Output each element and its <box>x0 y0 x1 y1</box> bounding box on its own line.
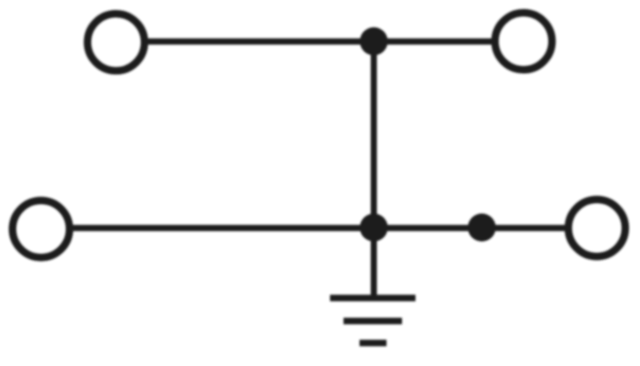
wire: bottom horizontal net <box>71 225 567 231</box>
junction dot: bottom net tap <box>468 214 496 242</box>
ground symbol <box>330 298 416 343</box>
terminal circle top-right <box>495 13 552 70</box>
terminal circle top-left <box>88 14 145 71</box>
wire: top horizontal net <box>146 38 493 44</box>
junction dot: bottom net / vertical link <box>360 214 388 242</box>
junction dot: top net / vertical link <box>360 27 388 55</box>
wire: vertical link from top net down to ground <box>371 42 377 299</box>
terminal circle bottom-right <box>568 200 625 257</box>
terminal circle bottom-left <box>13 201 70 258</box>
